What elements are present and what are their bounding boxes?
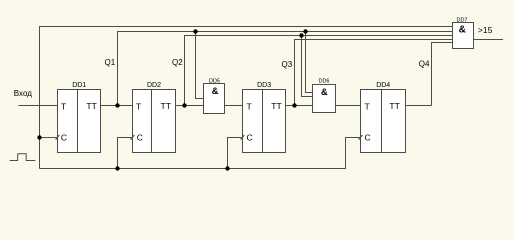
wire: DD3 Q to DD6 in3 — [286, 105, 313, 107]
svg-text:T: T — [247, 101, 252, 111]
node: Q2 line to DD6 — [299, 33, 303, 37]
flip-flop DD4 — [359, 82, 406, 153]
svg-text:T: T — [365, 101, 370, 111]
DD6 body — [313, 85, 336, 113]
wire: DD1 Q to DD2 T — [101, 105, 133, 107]
svg-text:&: & — [321, 87, 328, 98]
wire: DD1 C stub — [40, 137, 58, 139]
and-gate DD7 — [453, 17, 474, 48]
node: clock to DD1 C — [37, 135, 41, 139]
svg-text:DD5: DD5 — [209, 78, 220, 84]
DD4 dynamic clock input marker — [359, 135, 363, 140]
wire: DD2 Q to DD5 in2 — [176, 105, 204, 107]
and-gate DD6 — [313, 79, 336, 113]
svg-text:DD2: DD2 — [147, 82, 161, 89]
DD2 section divider — [151, 90, 153, 153]
DD3 dynamic clock input marker — [241, 135, 245, 140]
DD1 body — [58, 90, 101, 153]
node: Q1 line to DD6 — [303, 29, 307, 33]
svg-text:Q3: Q3 — [282, 60, 293, 69]
svg-text:DD3: DD3 — [257, 82, 271, 89]
flip-flop DD2 — [131, 82, 176, 153]
and-gate DD5 — [204, 78, 225, 113]
wire: DD6 in2 feed from Q2 line — [302, 36, 313, 97]
wire: Q4 top line — [432, 43, 453, 106]
svg-text:>15: >15 — [478, 25, 493, 35]
wire: input to DD1 T — [19, 105, 58, 107]
DD2 body — [133, 90, 176, 153]
wire: DD5 in1 feed from Q1 line — [196, 32, 204, 99]
DD4 section divider — [381, 90, 383, 153]
svg-text:TT: TT — [389, 101, 399, 111]
svg-text:DD6: DD6 — [318, 79, 329, 85]
wire: DD6 in1 feed from Q1 line — [306, 32, 313, 93]
wire: Q1 top line — [118, 32, 453, 106]
svg-text:TT: TT — [86, 101, 96, 111]
DD1 section divider — [77, 90, 79, 153]
flip-flop DD1 — [56, 82, 101, 153]
svg-text:TT: TT — [161, 101, 171, 111]
svg-text:Вход: Вход — [14, 89, 32, 98]
DD4 body — [361, 90, 406, 153]
svg-text:C: C — [247, 132, 253, 142]
svg-text:C: C — [137, 132, 143, 142]
wire: bottom clock bus — [40, 138, 361, 169]
svg-text:DD1: DD1 — [72, 82, 86, 89]
wire: DD3 C riser — [228, 138, 243, 169]
node: Q2 output junction — [182, 103, 186, 107]
svg-text:T: T — [61, 101, 66, 111]
node: Q3 output junction — [292, 103, 296, 107]
DD3 section divider — [262, 90, 264, 153]
node: bus to DD3 C — [225, 166, 229, 170]
DD1 dynamic clock input marker — [56, 135, 60, 140]
wire: DD4 Q to Q4 riser — [406, 105, 432, 107]
wire: DD5 out to DD3 T — [225, 105, 243, 107]
DD2 dynamic clock input marker — [131, 135, 135, 140]
svg-text:TT: TT — [271, 101, 281, 111]
wire: clock top line — [40, 27, 453, 169]
svg-text:Q4: Q4 — [419, 59, 430, 68]
node: Q1 line to DD5 — [193, 29, 197, 33]
node: bus to DD2 C — [115, 166, 119, 170]
svg-text:C: C — [61, 132, 67, 142]
wire: DD6 out to DD4 T — [336, 105, 361, 107]
svg-text:C: C — [365, 132, 371, 142]
wire: DD7 output — [474, 39, 504, 41]
wire: DD2 C riser — [118, 138, 133, 169]
svg-text:&: & — [212, 86, 219, 97]
svg-text:DD7: DD7 — [456, 17, 467, 23]
wire: Q2 top line — [185, 36, 453, 106]
clock pulse symbol — [10, 154, 36, 161]
svg-text:&: & — [459, 24, 466, 35]
flip-flop DD3 — [241, 82, 286, 153]
node: Q1 output junction — [115, 103, 119, 107]
DD7 body — [453, 23, 474, 49]
DD3 body — [243, 90, 286, 153]
DD5 body — [204, 84, 225, 114]
svg-text:Q2: Q2 — [172, 58, 183, 67]
svg-text:T: T — [136, 101, 141, 111]
svg-text:Q1: Q1 — [105, 58, 116, 67]
wire: Q3 top line — [295, 40, 453, 106]
svg-text:DD4: DD4 — [376, 82, 390, 89]
